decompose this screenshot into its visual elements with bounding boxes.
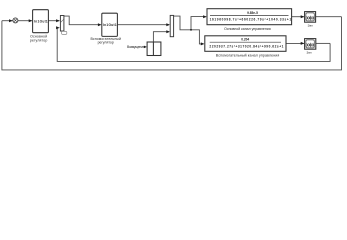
svg-text:161960998.7s³+660226.79s²+1040: 161960998.7s³+660226.79s²+1040.33s+1 (210, 18, 292, 22)
svg-text:регулятор: регулятор (30, 38, 48, 42)
wire input to sum (2, 20, 13, 22)
wire delay1 to right edge (316, 16, 342, 18)
switch A lever (61, 20, 64, 23)
arrowhead into mux B in1 (166, 23, 170, 26)
svg-text:0.204: 0.204 (241, 38, 249, 42)
arrowhead into switch A in1 (56, 19, 60, 22)
delay2 block (305, 39, 316, 50)
svg-text:In1Out1: In1Out1 (34, 19, 48, 23)
svg-text:Вспомогательный канал управлен: Вспомогательный канал управления (216, 53, 280, 57)
wire delay2 to inner loop (316, 42, 330, 44)
wire sum to controller1 (18, 20, 32, 22)
wire controller2 to mux B (117, 24, 169, 26)
arrowhead into disturbance C (144, 46, 147, 49)
wire switch A output (64, 16, 100, 25)
svg-text:Зап: Зап (306, 50, 311, 54)
node tee junction (190, 29, 192, 31)
svg-text:Основной канал управления: Основной канал управления (224, 27, 271, 31)
arrowhead into controller2 (98, 23, 102, 26)
wire inner feedback loop (57, 28, 330, 62)
delay1 icon waves (307, 16, 314, 19)
TF2 fraction bar (210, 41, 281, 43)
disturbance block C (147, 42, 161, 56)
wire outer feedback loop (2, 17, 342, 70)
TF2 plant block (205, 36, 286, 52)
TF1 plant block (207, 9, 292, 25)
delay1 icon screen (306, 13, 314, 21)
wire branch tee up to TF1 (191, 17, 206, 30)
switch A label box (62, 31, 67, 34)
arrowhead into sum (9, 19, 13, 22)
switch A block (60, 16, 64, 32)
wire TF2 to delay2 (286, 42, 304, 44)
arrowhead into TF1 (203, 15, 207, 18)
arrowhead into mux B in2 (166, 30, 170, 33)
arrowhead into delay2 (301, 42, 305, 45)
delay2 icon screen (306, 40, 314, 48)
wire controller1 to switch A (48, 20, 59, 22)
wire mux B zigzag down to TF2 (174, 16, 204, 44)
svg-text:In1Out1: In1Out1 (103, 23, 117, 27)
svg-text:регулятор: регулятор (98, 41, 114, 45)
arrowhead into TF2 (201, 42, 205, 45)
arrowhead into delay1 (301, 15, 305, 18)
sum block (13, 18, 18, 23)
arrowhead into switch A in2 (56, 26, 60, 29)
svg-text:Зап: Зап (308, 24, 313, 28)
delay1 block (305, 12, 316, 23)
block C divider (152, 42, 154, 56)
svg-text:Возмущение: Возмущение (127, 45, 145, 49)
svg-text:9.85e-5: 9.85e-5 (247, 11, 258, 15)
mux B block (170, 15, 173, 36)
delay2 icon waves (307, 43, 314, 46)
wire TF1 to delay1 (292, 16, 304, 18)
wire disturbance C up to mux B (153, 32, 169, 42)
controller1 block (33, 10, 49, 33)
arrowhead into controller1 (29, 19, 33, 22)
controller2 block (102, 13, 118, 36)
TF1 fraction bar (210, 15, 289, 17)
svg-text:2202937.27s³+317020.84s²+990.6: 2202937.27s³+317020.84s²+990.62s+1 (209, 44, 283, 48)
